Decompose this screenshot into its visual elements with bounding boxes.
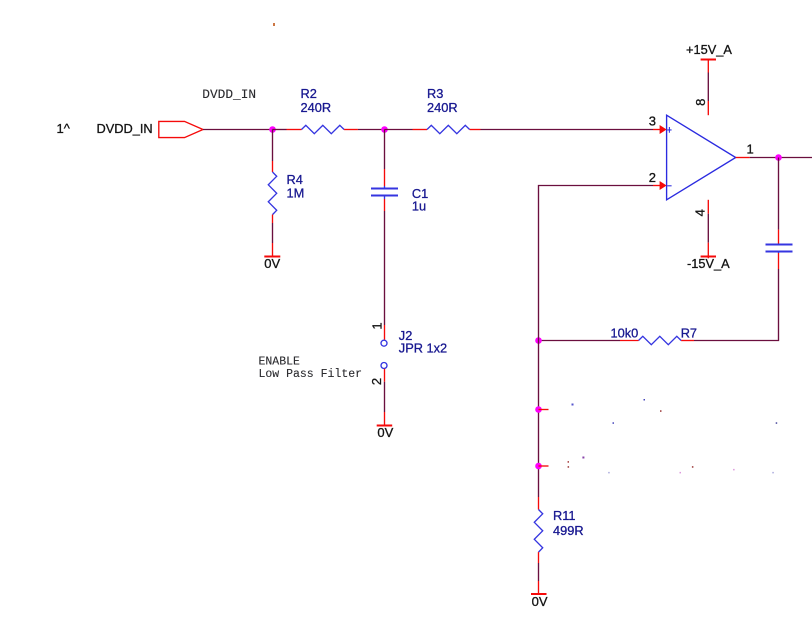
svg-text:1: 1 [370, 322, 385, 329]
svg-text:Low Pass Filter: Low Pass Filter [259, 368, 363, 381]
svg-text:4: 4 [693, 209, 708, 216]
svg-text:-15V_A: -15V_A [687, 256, 730, 271]
output pin 1 wire [736, 157, 812, 159]
svg-text:R7: R7 [681, 326, 697, 341]
wire J2 to ground [384, 382, 386, 412]
svg-text:1M: 1M [287, 186, 305, 201]
resistor R2 [273, 86, 358, 134]
svg-text:2: 2 [649, 170, 656, 185]
svg-text:1^: 1^ [57, 121, 71, 136]
resistor R11 [534, 497, 583, 581]
wire C1 to J2 [384, 211, 386, 325]
ground 0V under J2 [377, 412, 394, 440]
svg-text:2: 2 [369, 378, 384, 385]
capacitor C1 [371, 130, 428, 214]
junction node at C1 top [381, 126, 388, 133]
resistor R3 [385, 86, 481, 134]
wire down from R7 junction [538, 341, 540, 498]
pin 8 wire [693, 73, 709, 116]
svg-text:8: 8 [693, 99, 708, 106]
svg-text:10k0: 10k0 [611, 326, 639, 341]
junction node mid 1 [535, 406, 548, 413]
resistor R7 [539, 326, 698, 345]
power -15V_A [687, 256, 730, 271]
svg-text:0V: 0V [532, 594, 548, 609]
junction node at R7 left [535, 337, 542, 344]
jumper J2 [369, 322, 447, 385]
svg-text:240R: 240R [427, 100, 458, 115]
junction node at R4 top [269, 126, 276, 133]
feedback capacitor [694, 158, 793, 341]
pin 2 arrow [653, 181, 667, 190]
wire R2 to C1 junction [358, 129, 385, 131]
svg-text:3: 3 [649, 114, 656, 129]
svg-text:DVDD_IN: DVDD_IN [97, 121, 153, 136]
port DVDD_IN [57, 121, 204, 138]
pin 4 wire [693, 200, 709, 258]
svg-text:ENABLE: ENABLE [259, 356, 301, 369]
svg-text:0V: 0V [377, 425, 393, 440]
op-amp [649, 114, 754, 200]
junction node at output [775, 154, 782, 161]
text ENABLE Low Pass Filter [259, 356, 363, 381]
svg-text:240R: 240R [301, 100, 332, 115]
svg-text:DVDD_IN: DVDD_IN [202, 87, 256, 102]
ground 0V under R11 [531, 581, 548, 609]
wire pin 2 feedback [539, 186, 654, 341]
svg-text:1: 1 [747, 141, 754, 156]
resistor R4 [268, 130, 304, 244]
junction node mid 2 [535, 463, 548, 470]
ground 0V under R4 [264, 243, 280, 271]
svg-text:R11: R11 [553, 508, 576, 523]
wire port to junction [203, 129, 273, 131]
svg-text:JPR 1x2: JPR 1x2 [399, 341, 447, 356]
pin 3 arrow [653, 125, 667, 134]
svg-text:+15V_A: +15V_A [686, 42, 732, 57]
svg-text:0V: 0V [264, 256, 280, 271]
svg-text:499R: 499R [553, 523, 584, 538]
wire R3 to op-amp pin 3 [481, 129, 654, 131]
svg-text:1u: 1u [412, 199, 426, 214]
stray screen artifacts [273, 23, 777, 473]
power +15V_A [686, 42, 732, 73]
